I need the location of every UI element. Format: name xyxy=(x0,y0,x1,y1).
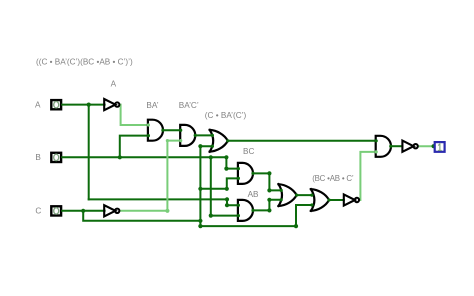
AND gate U7 (BC) xyxy=(238,163,253,184)
wire B up to AND1 lower input xyxy=(120,136,149,158)
junction node B to AND1 xyxy=(118,155,122,159)
svg-text:A: A xyxy=(111,79,117,88)
wire final AND output to NOT U4 xyxy=(391,145,403,147)
svg-text:(BC •AB • C’: (BC •AB • C’ xyxy=(312,174,354,183)
wire A vertical branch down xyxy=(88,105,90,200)
wire B down to AB gate lower input xyxy=(211,157,239,215)
junction node AB lower corner xyxy=(209,214,213,218)
wire OR1 output long run to final AND xyxy=(228,140,376,142)
junction node C line to riser xyxy=(198,219,202,223)
junction node B to AB xyxy=(209,155,213,159)
svg-text:C: C xyxy=(35,207,41,216)
wire OR3 output to NOT U3 xyxy=(329,199,344,201)
output pin (value 1) xyxy=(435,142,445,152)
wire AND2 output to OR1 upper input xyxy=(195,134,212,136)
wire A horizontal to AB gate column xyxy=(89,199,239,205)
pin port AND1 inputs xyxy=(147,123,150,126)
wire AB output jog to OR2 lower input xyxy=(253,200,281,211)
junction node OR1 feed corner xyxy=(198,144,202,148)
input pin C xyxy=(51,206,61,215)
junction node C riser mid xyxy=(198,187,202,191)
junction node A jog upper xyxy=(225,197,229,201)
wire C link to BC gate lower input xyxy=(200,178,238,188)
pin port OR1 inputs xyxy=(211,134,214,137)
svg-text:BA’C’: BA’C’ xyxy=(179,101,199,110)
junction node bottom run corner xyxy=(294,224,298,228)
wire A pin to NOT U1 xyxy=(62,104,104,106)
svg-text:BA’: BA’ xyxy=(146,101,158,110)
junction node OR2 lower corner xyxy=(267,198,271,202)
wire BC output jog to OR2 upper input xyxy=(253,173,281,190)
NOT gate U1 xyxy=(104,99,119,110)
wire C vertical riser to OR1 lower input xyxy=(200,146,212,226)
wire AND1 output to AND2 xyxy=(163,129,181,131)
NOT gate U3 xyxy=(344,194,359,205)
wire NOT U2 output C' (high) xyxy=(120,210,167,212)
junction node BC upper corner xyxy=(224,167,228,171)
OR gate U12 (BC+AB+C) xyxy=(311,189,329,211)
junction node AB out corner xyxy=(267,208,271,212)
wire B down to BC gate upper input xyxy=(226,157,238,168)
pin port BC inputs xyxy=(237,167,240,170)
junction node OR2 upper corner xyxy=(267,188,271,192)
svg-text:BC: BC xyxy=(243,147,254,156)
junction node A jog lower xyxy=(225,203,229,207)
svg-text:A: A xyxy=(35,100,41,109)
pin port output pin xyxy=(432,144,436,148)
pin port outputs xyxy=(161,129,164,132)
pin port AND2 inputs xyxy=(179,129,182,132)
wire NOT U4 output to output pin (high) xyxy=(419,145,434,147)
junction node A branch xyxy=(87,103,91,107)
AND gate U6 (BA'C') xyxy=(180,125,195,146)
pin port OR3 inputs xyxy=(310,194,313,197)
junction node BC out corner xyxy=(267,171,271,175)
NOT gate U2 xyxy=(104,205,119,216)
wire C' riser to AND2 lower input (high) xyxy=(167,141,180,211)
junction node C' riser (high) xyxy=(165,209,169,213)
pin port final AND inputs xyxy=(375,139,378,142)
OR gate U10 (C'+BA'C') xyxy=(210,130,228,152)
wire C branch down and right xyxy=(83,211,200,221)
wire B line xyxy=(62,156,226,158)
input pin B xyxy=(51,153,61,162)
pin port OR2 inputs xyxy=(280,189,283,192)
svg-text:((C • BA’(C’)(BC •AB • C’)’): ((C • BA’(C’)(BC •AB • C’)’) xyxy=(36,58,133,67)
wire C long bottom run to OR3 lower input xyxy=(200,205,312,226)
AND gate U8 (AB) xyxy=(238,200,253,221)
junction node C' riser top corner (high) xyxy=(166,139,169,142)
junction node BC lower corner xyxy=(225,187,229,191)
wire OR2 output to OR3 xyxy=(297,194,312,196)
OR gate U11 (BC+AB) xyxy=(279,184,297,206)
wire NOT U1 output A' (high) xyxy=(120,105,148,125)
pin port AB inputs xyxy=(237,204,240,207)
AND gate U5 (BA') xyxy=(148,120,163,141)
wire C pin to NOT U2 xyxy=(62,210,104,212)
junction node C branch xyxy=(81,209,85,213)
svg-text:AB: AB xyxy=(248,190,259,199)
svg-text:B: B xyxy=(35,153,41,162)
wire NOT U3 output riser to final AND lower input (high) xyxy=(360,152,376,200)
svg-text:(C • BA’(C’): (C • BA’(C’) xyxy=(205,111,247,120)
input pin A xyxy=(51,100,61,109)
junction node C riser bottom xyxy=(198,224,202,228)
junction node B to BC xyxy=(224,155,228,159)
AND gate U9 (final) xyxy=(376,136,391,157)
NOT gate U4 xyxy=(402,141,417,152)
